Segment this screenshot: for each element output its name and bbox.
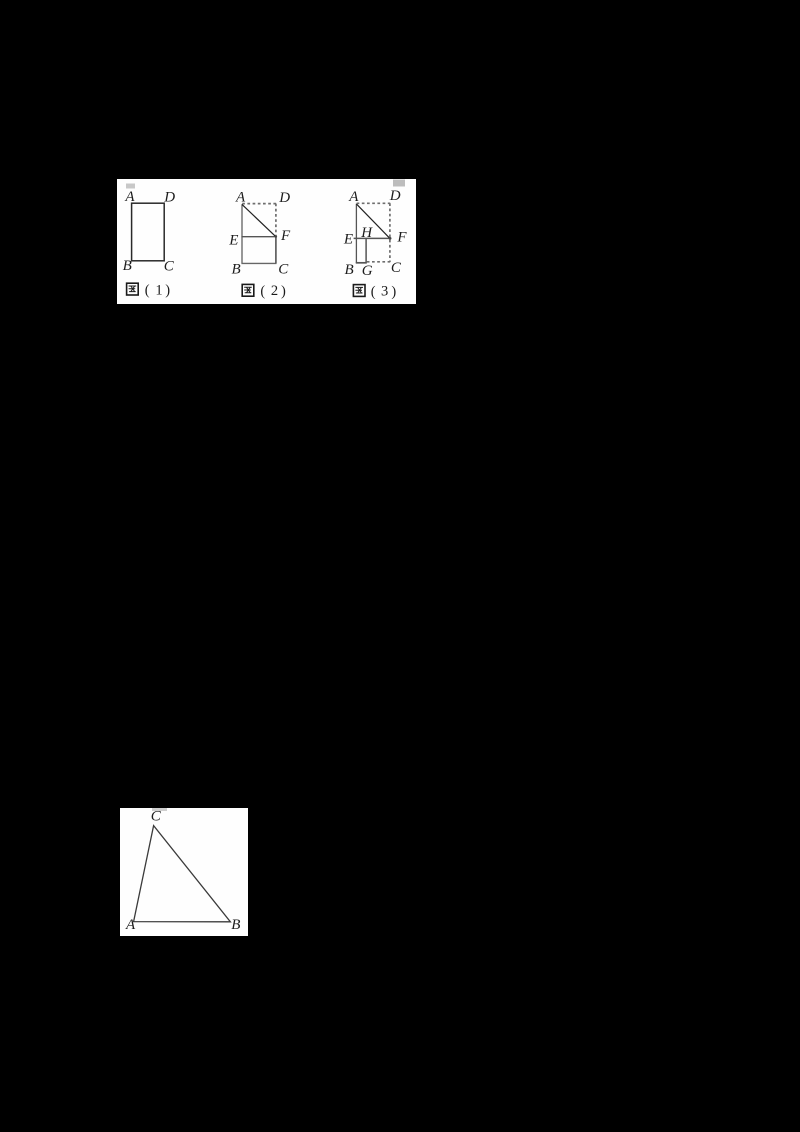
dashed top A-D — [357, 202, 391, 204]
caption 图(2) — [242, 283, 286, 299]
segment H-G vertical — [365, 238, 367, 262]
svg-text:C: C — [151, 808, 162, 824]
side C-F — [275, 236, 277, 263]
dashed right D-F — [275, 204, 277, 237]
figure 3 scan smudge above D — [393, 180, 405, 187]
triangle ABC — [134, 826, 231, 922]
scan smudge above C — [152, 808, 167, 811]
bottom white panel with triangle — [120, 808, 248, 936]
diagonal A-F — [356, 204, 390, 239]
segment E-F — [354, 237, 392, 239]
segment E-F — [241, 236, 276, 238]
figure 1: rectangle ABCD — [123, 189, 176, 299]
figure 2 — [228, 189, 291, 299]
bottom B-C — [241, 262, 276, 264]
diagonal A-F — [242, 204, 276, 236]
side A-B — [241, 204, 243, 263]
caption 图(3) — [353, 284, 396, 300]
rectangle A-D-C-B — [132, 203, 165, 261]
figure 1 scan smudge above A — [126, 184, 135, 189]
caption 图(1) — [127, 282, 171, 298]
bottom B-G — [356, 262, 367, 264]
svg-text:A: A — [125, 917, 136, 933]
top white panel with three figures — [117, 179, 416, 304]
dashed right D-C — [389, 203, 391, 262]
junction dot F — [275, 235, 277, 237]
dashed bottom G-C — [367, 261, 390, 263]
junction dot F — [389, 237, 392, 240]
dashed top A-D — [242, 203, 276, 205]
svg-text:B: B — [231, 917, 240, 933]
figure 3 — [343, 188, 408, 300]
side A-B — [355, 204, 357, 264]
